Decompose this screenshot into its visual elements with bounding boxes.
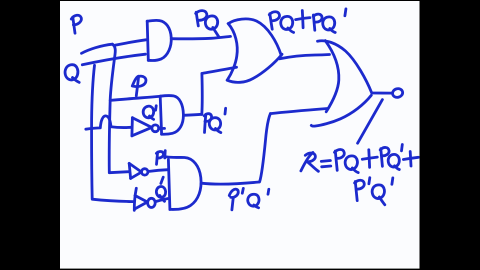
wire Q input	[82, 54, 145, 65]
wire P branch vertical	[109, 44, 129, 173]
label PQ+PQ'	[269, 9, 346, 33]
wire NOT3 to AND3	[155, 199, 167, 202]
node output o	[392, 88, 404, 99]
wire P input	[82, 44, 113, 53]
wire AND2 output PQ'	[183, 114, 201, 115]
or-gate OR2 bottom edge	[311, 95, 371, 126]
not-gate NOT1 bubble	[152, 125, 159, 132]
and-gate AND2 left edge	[160, 96, 161, 134]
not-gate NOT1 triangle	[130, 118, 133, 136]
label Q' above NOT1	[143, 106, 156, 120]
wire P into AND1	[115, 40, 146, 46]
label P above AND2	[132, 76, 146, 96]
wire Q branch vertical	[92, 65, 134, 201]
wire AND1 output PQ	[171, 36, 230, 38]
and-gate AND3 left edge	[168, 160, 170, 210]
label PQ	[196, 11, 219, 37]
or-gate OR2 top edge	[318, 41, 372, 93]
or-gate OR1 bottom edge	[227, 54, 282, 82]
wire P'Q' riser	[260, 114, 271, 182]
and-gate AND1 left edge	[147, 21, 148, 60]
wire P'Q' to OR2 bottom input	[270, 109, 327, 114]
label equation line 2 P'Q'	[355, 178, 393, 205]
and-gate AND3 body	[166, 157, 201, 210]
label P'Q' under wire	[229, 188, 268, 209]
wire NOT2 to AND3	[148, 170, 168, 172]
label PQ' right of AND2	[204, 108, 225, 132]
wire Q to NOT1 with hop over P branch	[86, 116, 132, 129]
label equation R = PQ + PQ' +	[301, 145, 418, 173]
input P label	[71, 15, 81, 33]
wire AND3 output P'Q'	[201, 182, 259, 184]
label Q' above NOT3	[156, 177, 165, 201]
not-gate NOT3 input slash	[134, 188, 136, 210]
not-gate NOT2 bubble	[142, 169, 148, 175]
input Q label	[65, 65, 79, 83]
label P' above NOT2	[156, 151, 165, 165]
and-gate AND2 body	[160, 96, 183, 135]
wire OR2 output	[372, 92, 393, 95]
and-gate AND1 body	[147, 20, 171, 60]
not-gate NOT3 bubble	[148, 198, 156, 207]
wire P to AND2 top input	[110, 96, 159, 100]
whiteboard background	[60, 1, 420, 269]
or-gate OR1 top edge	[228, 19, 281, 55]
wire PQ' riser	[200, 74, 203, 115]
not-gate NOT2 triangle	[129, 163, 130, 178]
not-gate NOT3 triangle	[135, 196, 148, 210]
or-gate OR2 left concave edge	[325, 41, 339, 112]
wire NOT1 to AND2	[159, 127, 165, 130]
annotation line to equation	[358, 100, 383, 144]
wire OR1 output to OR2	[280, 55, 330, 59]
wire PQ' to OR1 bottom input	[202, 67, 237, 73]
or-gate OR1 left concave edge	[227, 24, 237, 81]
